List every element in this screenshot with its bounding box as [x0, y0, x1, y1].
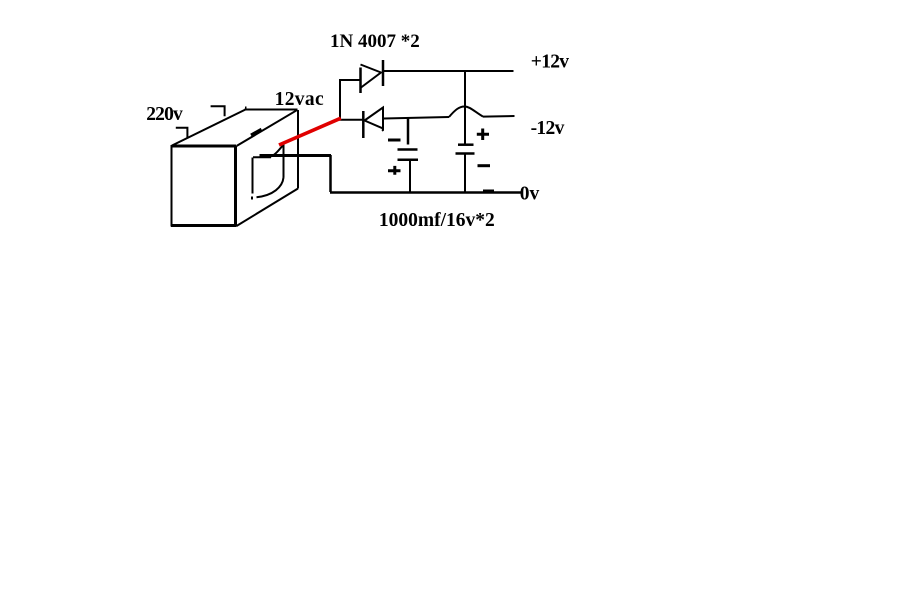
- svg-text:1N 4007 *2: 1N 4007 *2: [330, 31, 420, 52]
- C1 plus label: [388, 166, 401, 175]
- svg-text:-12v: -12v: [531, 118, 565, 139]
- wire junction to D2 cathode: [339, 119, 363, 121]
- red wire transformer tap to diode junction: [279, 118, 341, 145]
- transformer T1 box right face: [237, 110, 299, 226]
- wire transformer secondary to corner: [260, 154, 332, 157]
- diode D1 cathode bar: [382, 60, 385, 86]
- diode D2 triangle: [365, 108, 384, 131]
- svg-text:220v: 220v: [146, 104, 183, 125]
- svg-text:12vac: 12vac: [275, 89, 324, 110]
- capacitor C1 bottom plate: [398, 158, 419, 161]
- C2 minus label: [478, 164, 491, 167]
- wire C1 to 0v rail: [409, 160, 411, 192]
- wire hump crossover: [449, 107, 483, 118]
- wire -12v down to C1: [407, 118, 410, 145]
- 220v input hook lower: [176, 128, 188, 138]
- capacitor C2 top plate: [458, 143, 474, 146]
- capacitor C1 top plate: [398, 148, 418, 151]
- 220v input hook upper: [211, 106, 225, 116]
- node junction vertical at diodes: [339, 80, 341, 121]
- transformer T1 box top face: [172, 108, 298, 147]
- wire 0v rail: [330, 191, 522, 194]
- diode D1 anode bar: [359, 68, 362, 94]
- wire C2 to 0v rail: [464, 154, 466, 193]
- transformer T1 box front face: [171, 145, 237, 227]
- C2 plus label: [477, 129, 489, 141]
- capacitor C2 bottom plate: [456, 152, 475, 155]
- diode D2 cathode bar: [362, 111, 365, 138]
- wire D2 anode to -12v: [384, 117, 449, 119]
- wire +12v rail: [383, 70, 514, 72]
- svg-text:0v: 0v: [520, 184, 540, 205]
- wire +12v rail down to C2: [464, 70, 466, 144]
- C1 minus label: [388, 139, 401, 142]
- wire junction to D1 anode: [339, 79, 361, 81]
- diode D1 triangle: [361, 65, 382, 88]
- wire -12v rail right of hump: [483, 115, 515, 118]
- transformer core window: [252, 145, 284, 200]
- wire corner down to 0v rail: [329, 155, 332, 192]
- svg-text:+12v: +12v: [531, 52, 570, 73]
- svg-text:1000mf/16v*2: 1000mf/16v*2: [379, 210, 495, 231]
- small mark above 0v rail: [483, 190, 494, 192]
